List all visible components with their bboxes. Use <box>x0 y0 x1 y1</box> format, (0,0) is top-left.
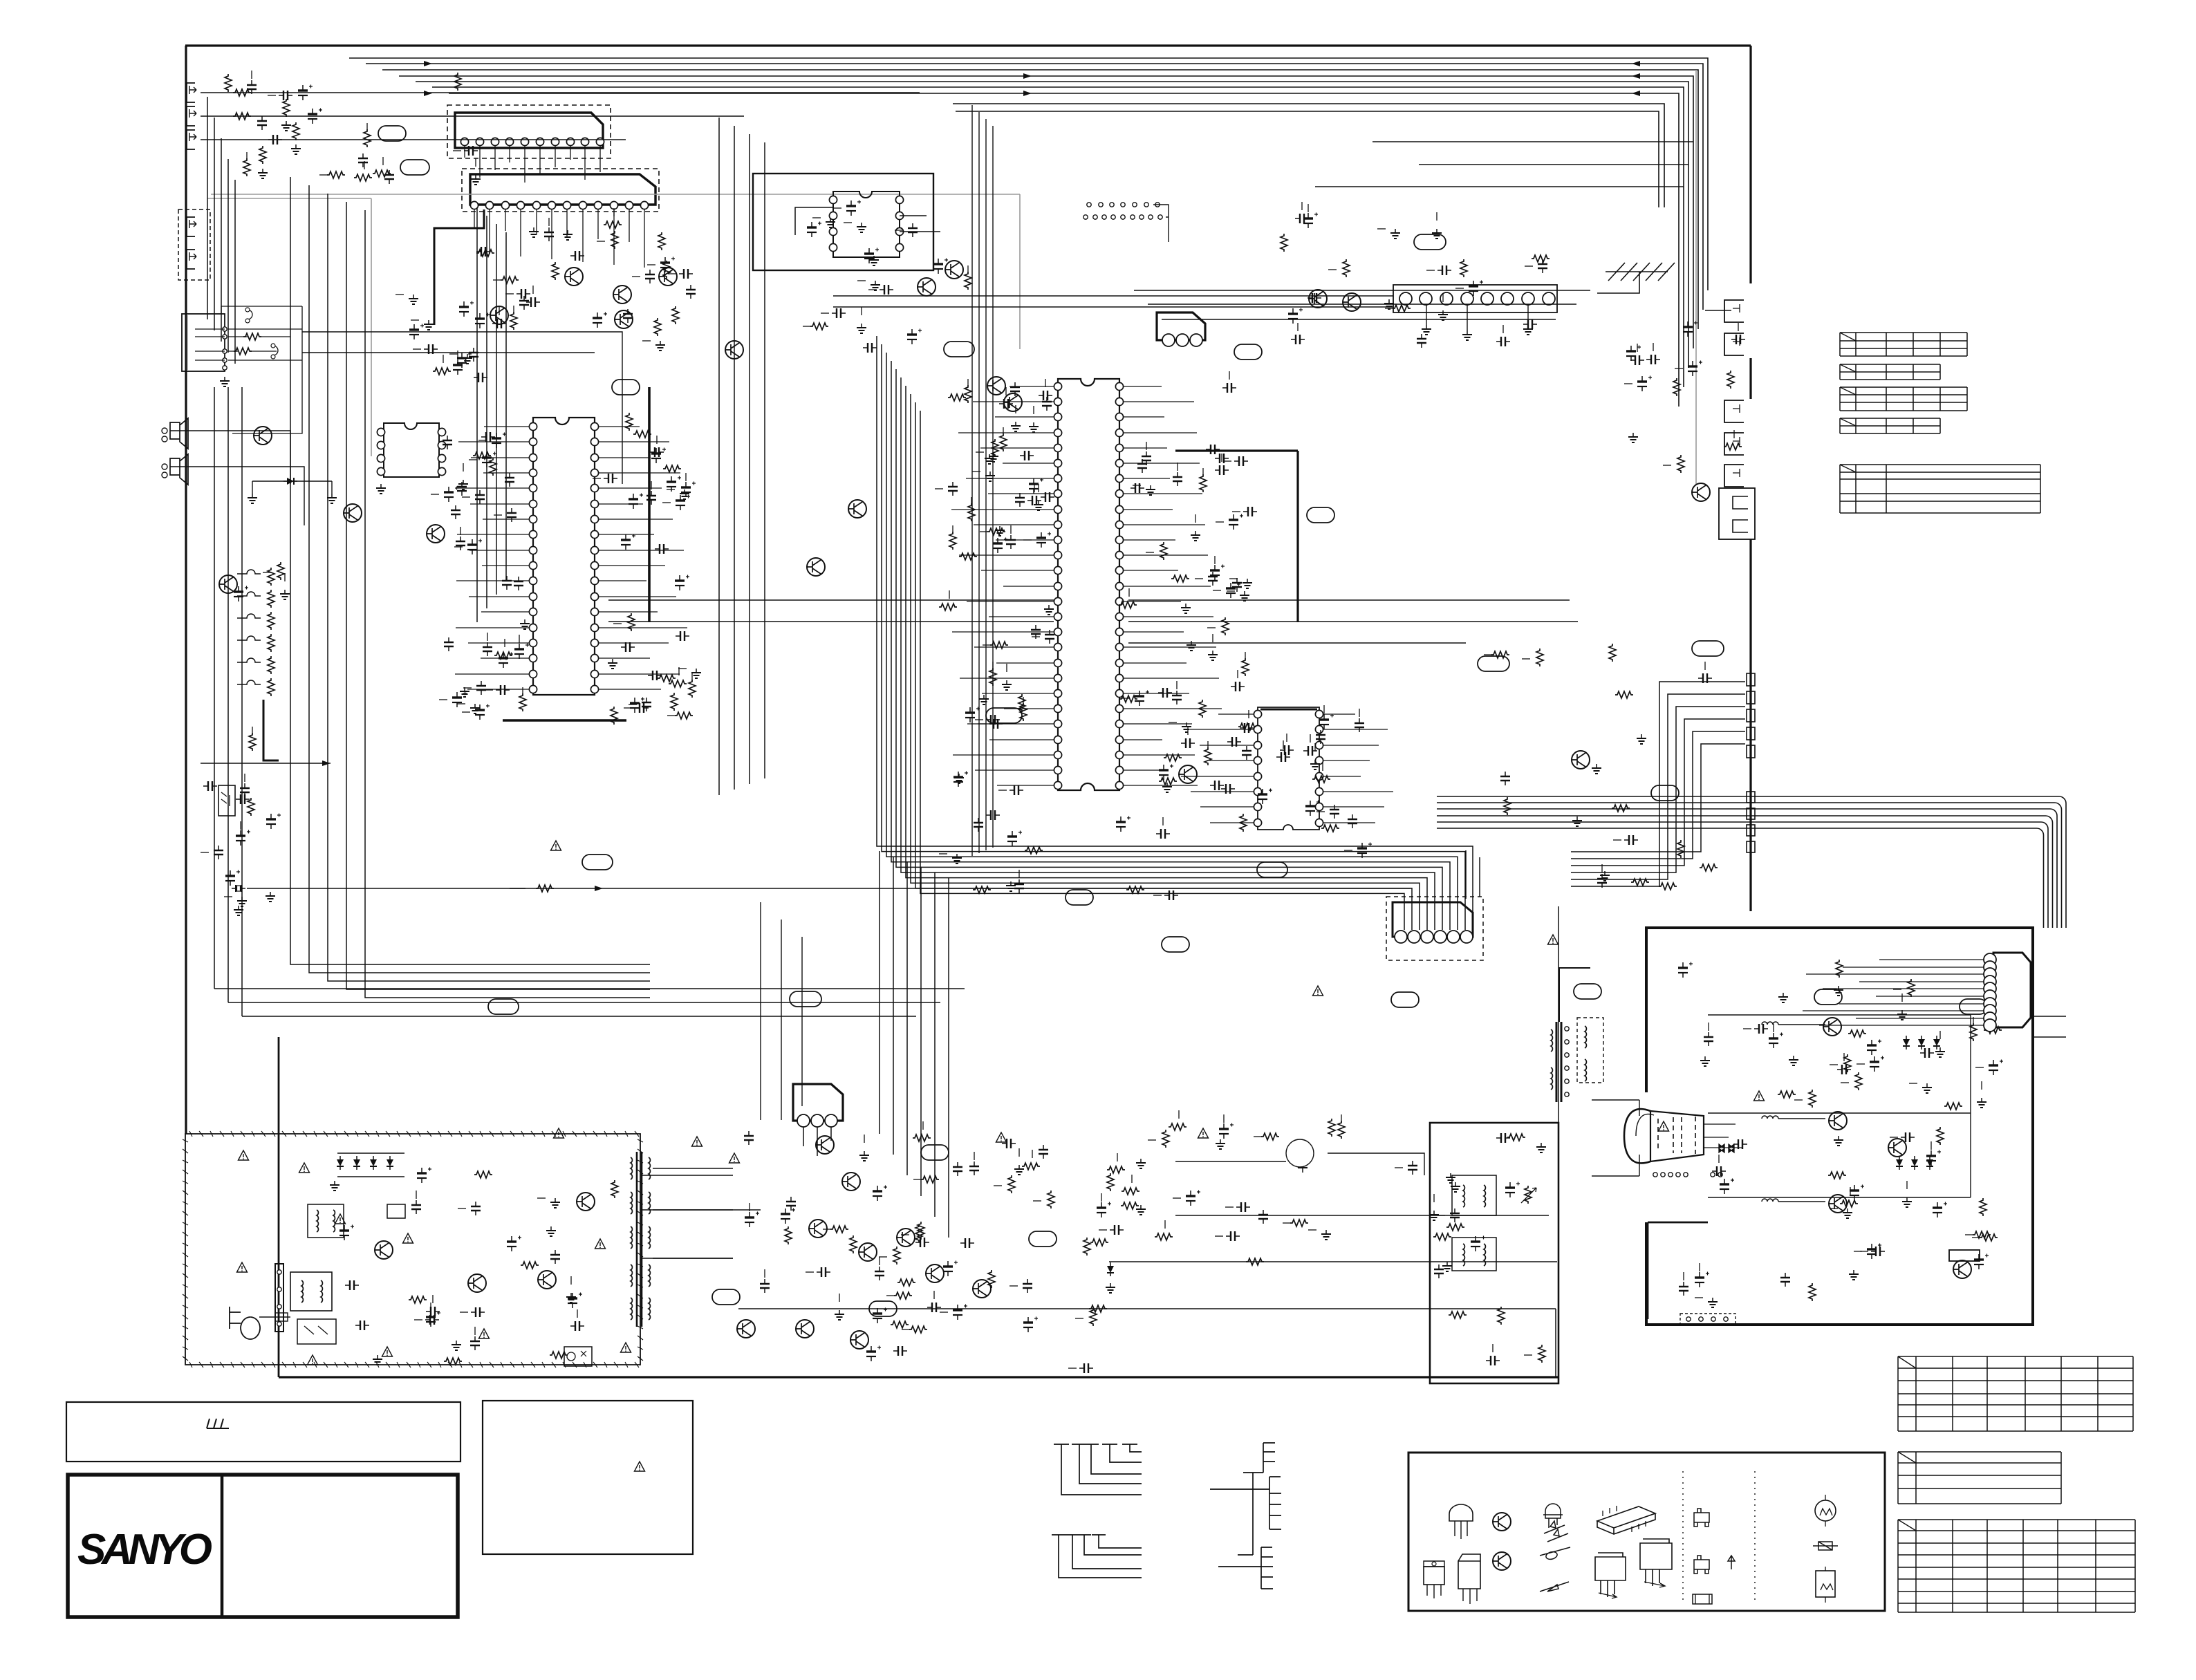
notes box (top strip) <box>66 1402 460 1462</box>
wire: arrow feed line <box>201 763 331 764</box>
damper diode pair <box>1719 1144 1734 1152</box>
IC U6 right pins <box>1115 382 1123 390</box>
legend TO-92 package <box>1449 1504 1473 1521</box>
PSU: line filter transformer <box>290 1272 332 1311</box>
CRT pin tree: top comb <box>1243 1443 1275 1473</box>
components top-left input area <box>247 80 257 94</box>
crystal bottom-left <box>232 885 245 892</box>
legend chip resistor <box>1693 1594 1712 1604</box>
IC U5 left pin wires <box>455 427 529 689</box>
wires: sub vertical stubs bottom area <box>761 902 802 1120</box>
legend photo diodes <box>1544 1521 1565 1533</box>
bus: central IC to top right diagonal runs <box>1134 290 1590 319</box>
bus: left input verticals <box>207 97 208 319</box>
IC U2 pins <box>470 201 478 209</box>
right edge RCA jacks <box>1724 300 1744 322</box>
right border connector stack B <box>1747 792 1755 803</box>
border: schematic outer bottom edge <box>279 1376 1558 1378</box>
CRT board RGB rails <box>1708 1015 1971 1197</box>
legend TO-3P package <box>1458 1554 1480 1589</box>
wires: long horizontals left of IC U6 <box>608 600 1054 622</box>
IC U10 (dashed outline) <box>1386 897 1483 960</box>
border: schematic outer right edge <box>1749 46 1751 283</box>
components right drive area <box>1451 1182 1460 1192</box>
components bottom sync area <box>915 1224 922 1242</box>
flyback transformer core <box>1556 1022 1558 1102</box>
wires: long horizontals right of IC U6 <box>1128 600 1578 643</box>
CRT board diode rows <box>1903 1036 1910 1049</box>
components PSU interior <box>426 1312 440 1327</box>
table: chart T5 <box>1840 465 2040 513</box>
IC U9 wires down <box>803 1127 831 1156</box>
transistors left column area <box>254 427 272 445</box>
table: chart TA <box>1898 1356 2133 1431</box>
flyback primary winding <box>1551 1029 1552 1052</box>
IC U1 pins <box>460 138 468 145</box>
CRT board RGB chokes <box>1762 1022 1778 1025</box>
IC U9 pins <box>797 1114 810 1127</box>
flyback secondary (dashed box) <box>1577 1018 1603 1083</box>
IC U5 body <box>533 418 595 695</box>
PSU: switching transformer T501 <box>636 1152 638 1327</box>
MOSFET horizontal output <box>1289 1142 1311 1164</box>
components sub-board <box>1505 1182 1520 1198</box>
components left of IC U6 <box>990 642 1008 648</box>
IC U8 regulator (pentagon) <box>1157 312 1205 340</box>
wire: B+ line bottom <box>738 1262 1557 1378</box>
bus: mid-left long verticals <box>290 177 650 964</box>
IC U4 body <box>384 423 439 477</box>
components near CN1 <box>1683 321 1697 337</box>
bus: verticals above central IC <box>971 105 973 856</box>
thick feed from switch chain <box>263 700 279 760</box>
right border connector stack A <box>1747 673 1755 686</box>
wires: top-left jack feeds <box>201 93 920 140</box>
flyback pin column <box>1565 1027 1569 1031</box>
IC U7 top thick rail <box>1260 709 1317 711</box>
PSU: bridge rectifier diodes <box>337 1156 344 1170</box>
yoke connector <box>1653 1173 1657 1177</box>
bus: central staircase bundle <box>877 336 1473 930</box>
components left mid column <box>236 830 250 846</box>
legend transistor symbol 2 <box>1493 1552 1511 1570</box>
IC U10 pins <box>1395 931 1407 943</box>
wire: bottom-left border riser <box>278 1037 280 1377</box>
title block divider <box>221 1475 224 1617</box>
table: chart TC <box>1898 1520 2135 1612</box>
IC U1 pin stubs <box>465 146 600 183</box>
IC U6 left pin wires <box>951 386 1054 785</box>
speaker SP2 <box>170 454 188 485</box>
thick horizontal feed under left IC <box>503 719 626 722</box>
wires: horizontal drive feeds <box>1175 1153 1549 1215</box>
PSU: warning triangles <box>239 1150 249 1160</box>
area warning triangles <box>554 1128 564 1138</box>
deflection yoke <box>1624 1109 1650 1163</box>
components near top audio ICs <box>604 221 622 228</box>
legend diode arrow <box>1728 1556 1735 1569</box>
CN2 wire loop <box>221 306 302 433</box>
legend fuse <box>1813 1542 1838 1550</box>
legend dotted separator 1 <box>1682 1471 1684 1603</box>
wire: zener at sync area <box>1107 1262 1114 1276</box>
IC U6 left pins <box>1054 382 1061 390</box>
IC U7 right pin wires <box>1323 714 1393 823</box>
yoke frame box <box>1592 1100 1639 1176</box>
IC U8 pins <box>1162 334 1175 346</box>
thick vertical feed line left IC <box>648 387 651 622</box>
top-right connector CN1 (tuner) <box>1393 285 1557 312</box>
legend power package 1 <box>1595 1553 1626 1597</box>
CN2 switch arcs <box>248 310 278 355</box>
CRT board block border <box>1646 928 2033 1325</box>
table: chart T3 <box>1840 387 1967 411</box>
wires: left block to center <box>302 332 622 484</box>
components below IC U6 <box>973 886 991 893</box>
legend SOT-23 2 <box>1694 1556 1709 1574</box>
PSU: AC inlet vertical connector <box>275 1264 283 1332</box>
legend small diode <box>1540 1582 1569 1592</box>
flyback HV lead <box>1559 968 1590 1022</box>
CN1 ground stubs <box>1426 305 1528 330</box>
block box around IC U3 <box>753 174 933 270</box>
CRT board thick feed <box>1648 1222 1708 1319</box>
bus: RGB lines to CRT board <box>1437 796 2066 928</box>
PSU: degauss thermistor <box>387 1204 405 1218</box>
center dual pin header <box>1087 203 1091 207</box>
wires: speaker feeds <box>170 431 304 525</box>
IC U4 ground stub <box>376 484 386 494</box>
border: schematic outer top edge <box>185 44 1751 46</box>
wires: tuner lines into CN1 <box>833 296 1393 307</box>
bus: left-of-center verticals upper <box>476 207 478 622</box>
IC U9 regulator (pentagon) <box>793 1084 843 1121</box>
table: chart T4 <box>1840 418 1940 433</box>
wires from IC U3 <box>795 207 940 235</box>
IC U2 pin stubs <box>474 209 644 268</box>
components right of IC U5 <box>604 474 617 483</box>
PSU: photocoupler <box>564 1347 592 1366</box>
border: schematic outer left edge <box>185 46 187 1134</box>
wire: long mid horizontal <box>510 888 1411 889</box>
IC U5 right pins <box>590 422 598 430</box>
warning triangle in spec box <box>635 1462 645 1471</box>
antenna hatch symbol <box>1597 263 1675 293</box>
border: right edge lower segments <box>1749 358 1751 399</box>
legend hybrid module <box>1597 1506 1655 1534</box>
right edge jack pair box <box>1719 488 1755 539</box>
components CRT board <box>1720 1179 1734 1195</box>
IC U7 left pins <box>1254 710 1261 718</box>
transistor cluster PSU <box>375 1241 393 1259</box>
CRT pin tree: main vertical <box>1210 1473 1269 1555</box>
gray net lines <box>211 194 1020 195</box>
power supply block: hatched isolation border <box>185 1134 640 1365</box>
IC U3 body <box>833 192 900 257</box>
speaker SP1 <box>170 418 188 449</box>
bus: inter-block verticals <box>718 118 720 795</box>
IC U3 pins <box>829 196 837 203</box>
CN2 pin wires and resistors <box>195 329 225 360</box>
IC U7 left pin wires <box>1181 714 1254 823</box>
IC U7 right pins <box>1315 710 1323 718</box>
IC U7 body <box>1258 707 1319 830</box>
transistor cluster top area <box>565 268 583 286</box>
components right mid area <box>1637 734 1646 744</box>
IC U6 body <box>1058 379 1119 790</box>
legend TO-220 package <box>1424 1567 1444 1585</box>
thick feed near central IC <box>1175 449 1298 451</box>
components around IC U7 <box>1357 843 1372 859</box>
CRT board inner dashed connector bottom <box>1680 1314 1736 1325</box>
legend transistor symbol 1 <box>1493 1513 1511 1531</box>
IC U5 left pins <box>529 422 537 430</box>
components right of IC U6 <box>1146 485 1155 495</box>
legend posistor <box>1816 1571 1835 1597</box>
CRT socket pin wires <box>1803 960 1984 1025</box>
table: chart T2 <box>1840 364 1940 380</box>
bus: lower-left long horizontals <box>214 989 965 1016</box>
CRT board label <box>1949 1250 1980 1261</box>
wires: PSU to sync bottom <box>641 1175 761 1258</box>
legend SOT-23 1 <box>1694 1509 1709 1527</box>
wires: right-mid connective <box>1466 850 1558 1123</box>
wires: CRT bundle entry <box>2033 1016 2066 1037</box>
bus: left lower verticals to corner <box>214 387 242 1016</box>
legend LED <box>1545 1504 1561 1528</box>
components above IC U5 <box>517 289 530 299</box>
CRT pin tree: right comb <box>1269 1477 1281 1529</box>
svg-text:SANYO: SANYO <box>77 1526 213 1574</box>
PSU: fuse link <box>259 1316 290 1318</box>
sub-board box left of CRT block <box>1430 1123 1558 1383</box>
wiring tree diagram 2 <box>1052 1535 1142 1578</box>
wire: diode pair <box>252 481 332 494</box>
sub-board transformer 1 <box>1452 1175 1496 1215</box>
components top of center column <box>871 281 880 290</box>
left AV connector block CN2 <box>182 314 225 371</box>
PSU: small transformer <box>308 1204 344 1238</box>
legend power package 2 <box>1640 1539 1672 1586</box>
gray bus vertical <box>1695 70 1697 484</box>
PSU: relay box <box>297 1319 336 1344</box>
hatch mark glyph in notes box <box>207 1419 229 1428</box>
wire: bundle to jack1 <box>1705 310 1731 311</box>
table: chart T1 <box>1840 333 1967 356</box>
PSU: chopper transistor <box>577 1193 595 1211</box>
bus: secondary top pair <box>953 104 1664 207</box>
wiring tree diagram 1 <box>1054 1444 1142 1495</box>
legend axial diode <box>1540 1547 1570 1559</box>
bus: top horizontal bundle <box>349 58 1708 290</box>
IC U4 pins <box>377 428 384 436</box>
net label pills <box>378 126 406 141</box>
transistor cluster CRT board <box>1823 1018 1841 1036</box>
transistor cluster bottom sync <box>816 1136 834 1154</box>
IC U5 right pin wires <box>599 427 687 689</box>
CRT pin tree: bottom comb <box>1218 1547 1273 1589</box>
IC U6 right pin wires <box>1124 386 1222 785</box>
legend thermistor <box>1815 1500 1836 1521</box>
bus arrows <box>1632 61 1640 66</box>
table: chart TB <box>1898 1452 2061 1504</box>
spec box (right of title block) <box>483 1401 693 1554</box>
components left of IC U5 <box>494 652 512 659</box>
sub-board transformer 2 <box>1452 1238 1496 1271</box>
bus: top bundle return lines <box>1315 142 1693 187</box>
switch chain left column <box>237 570 261 574</box>
left edge AV jacks (top three) <box>187 83 196 102</box>
components horizontal drive area <box>1321 1230 1331 1240</box>
components right top area <box>1281 234 1287 252</box>
optocoupler mid-left <box>218 785 235 816</box>
bus: bottom verticals from staircase <box>879 851 880 1134</box>
legend dotted separator 2 <box>1754 1471 1756 1603</box>
IC U2 audio amp (dashed outline) <box>462 169 659 212</box>
transistor cluster mid <box>848 500 866 518</box>
title block outer box <box>68 1475 458 1617</box>
PSU: main filter cap <box>417 1168 431 1184</box>
bus: staircase to right connector stack <box>1571 682 1745 886</box>
sub-board variable resistor <box>1525 1186 1532 1204</box>
legend box border <box>1408 1453 1885 1611</box>
CRT socket connector <box>1993 953 2031 1027</box>
PSU: AC plug <box>230 1307 260 1339</box>
IC U1 audio amp (dashed outline) <box>447 105 611 158</box>
thick audio feed wire <box>434 209 484 325</box>
left dashed connector box <box>178 209 210 280</box>
